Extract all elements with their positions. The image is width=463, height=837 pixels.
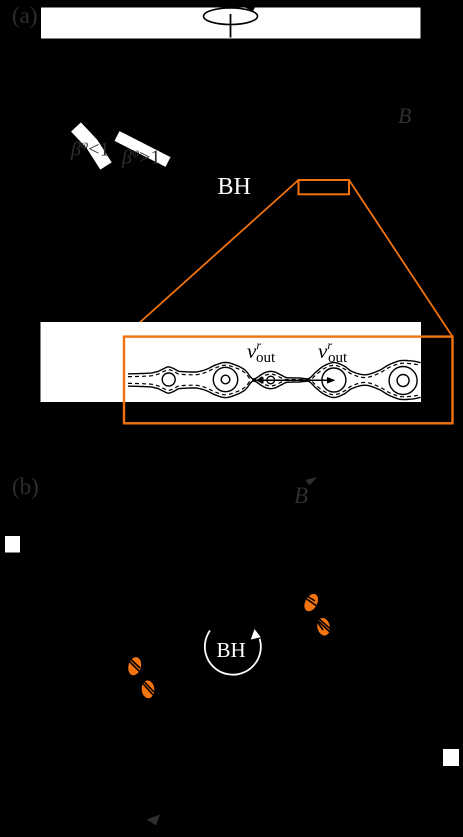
svg-text:(b): (b) xyxy=(12,474,39,499)
svg-text:βφ>1: βφ>1 xyxy=(121,145,160,169)
svg-text:(a): (a) xyxy=(12,3,38,28)
svg-text:out: out xyxy=(256,350,276,366)
svg-text:B: B xyxy=(398,103,411,128)
svg-text:B: B xyxy=(294,483,308,508)
svg-text:βφ<1: βφ<1 xyxy=(70,137,109,161)
svg-text:BH: BH xyxy=(217,638,246,662)
svg-text:BH: BH xyxy=(218,174,251,200)
svg-text:out: out xyxy=(328,350,348,366)
